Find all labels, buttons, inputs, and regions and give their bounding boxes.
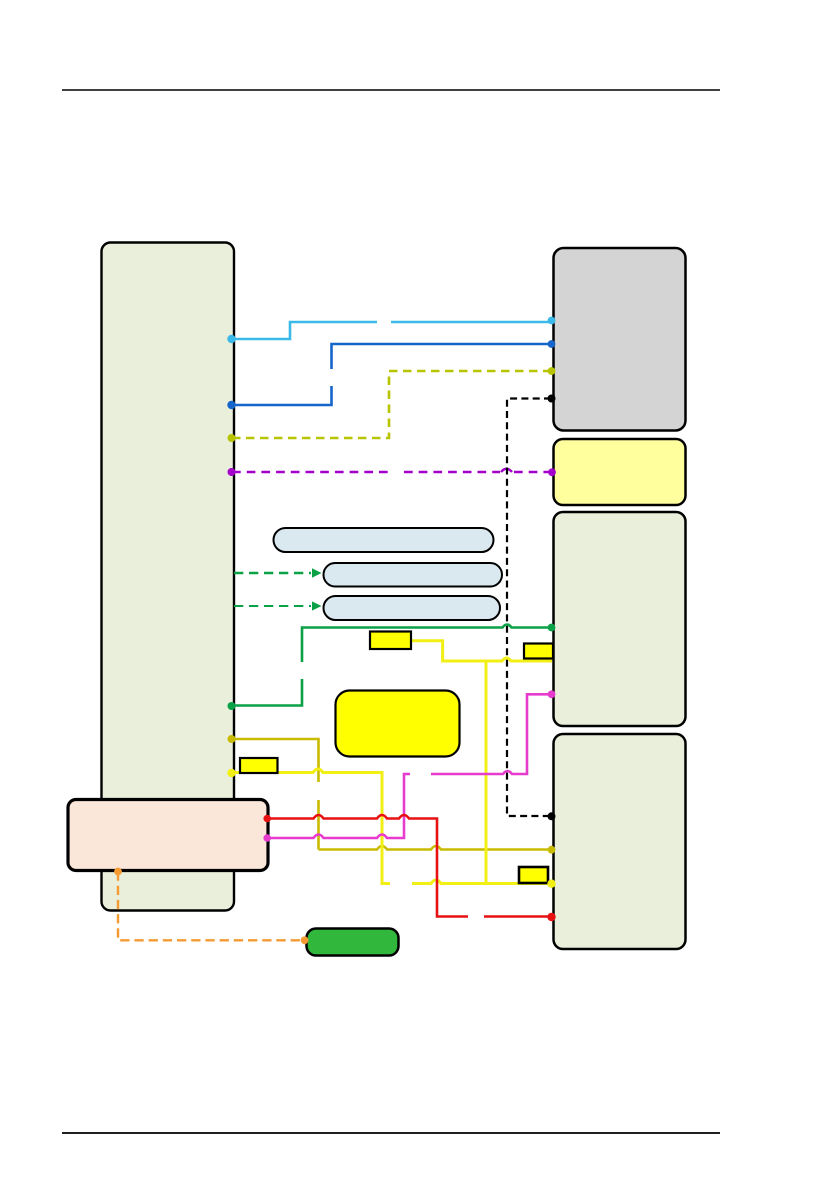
node red at U4 bbox=[547, 913, 555, 921]
value label L1 (on middle yellow wire) bbox=[370, 632, 411, 650]
node yellow at U4 bbox=[547, 880, 555, 888]
wire green net bbox=[232, 625, 551, 706]
node red at power supply bbox=[263, 815, 271, 823]
wire yellow net (vertical tie) bbox=[485, 661, 488, 884]
node cyan at U1 bbox=[548, 317, 556, 325]
slot pill 3 bbox=[324, 596, 501, 620]
wire purple dashed net bbox=[232, 469, 551, 472]
node black at U4 bbox=[548, 812, 556, 820]
node black at U1 bbox=[548, 395, 556, 403]
power supply box (pink, overlaps mainboard) bbox=[68, 800, 268, 871]
node yellow at mainboard bbox=[227, 769, 235, 777]
wire magenta net bbox=[269, 694, 552, 838]
wire yellow net (left branch) bbox=[232, 769, 551, 884]
node olive at mainboard bbox=[228, 434, 236, 442]
node gold at mainboard bbox=[228, 735, 236, 743]
node orange at green button bbox=[301, 936, 309, 944]
node green at U3 bbox=[548, 624, 556, 632]
green dashed arrow to pill 3 bbox=[234, 601, 322, 610]
big yellow component box bbox=[336, 691, 460, 757]
component box U2 (pale yellow) bbox=[554, 439, 686, 505]
wire black dashed net bbox=[507, 399, 551, 817]
node blue at mainboard bbox=[227, 401, 235, 409]
node cyan at mainboard bbox=[227, 335, 235, 343]
wire cyan net bbox=[232, 322, 551, 339]
mainboard block (left tall box) bbox=[102, 243, 235, 911]
wire olive dashed net bbox=[232, 371, 551, 438]
wire gold net bbox=[232, 739, 551, 850]
node orange at power supply bbox=[114, 868, 122, 876]
component box U4 (pale green, bottom right) bbox=[554, 734, 686, 949]
component box U1 (gray, top right) bbox=[554, 248, 686, 431]
slot pill 1 bbox=[274, 528, 494, 552]
node purple at U2 bbox=[548, 468, 556, 476]
green button bbox=[307, 929, 399, 956]
wire orange dashed net bbox=[118, 872, 304, 941]
value label L3 (on left yellow wire) bbox=[240, 758, 278, 773]
page footer rule bbox=[62, 1132, 720, 1134]
node blue at U1 bbox=[548, 340, 556, 348]
wire red net bbox=[268, 815, 551, 917]
page header rule bbox=[62, 89, 720, 91]
slot pill 2 bbox=[324, 563, 503, 587]
green dashed arrow to pill 2 bbox=[234, 568, 322, 578]
node purple at mainboard bbox=[228, 468, 236, 476]
node magenta at power supply bbox=[263, 834, 271, 842]
node magenta at U3 bbox=[548, 690, 556, 698]
wire blue net bbox=[232, 344, 551, 405]
value label L2 (at U3 edge) bbox=[524, 644, 553, 659]
value label L4 (at U4 edge) bbox=[519, 867, 548, 883]
component box U3 (pale green) bbox=[554, 512, 686, 726]
node gold at U4 bbox=[548, 846, 556, 854]
node green at mainboard bbox=[228, 702, 236, 710]
node olive at U1 bbox=[548, 367, 556, 375]
wire yellow net (middle branch) bbox=[411, 641, 552, 661]
